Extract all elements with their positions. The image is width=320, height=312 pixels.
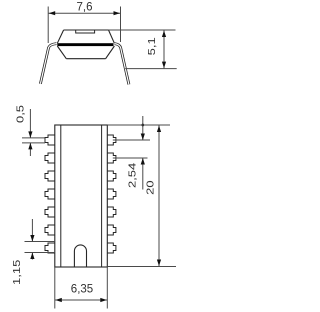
svg-text:6,35: 6,35 bbox=[71, 284, 93, 296]
svg-text:0,5: 0,5 bbox=[16, 105, 26, 123]
svg-text:2,54: 2,54 bbox=[128, 162, 138, 188]
svg-text:20: 20 bbox=[146, 180, 156, 194]
svg-text:7,6: 7,6 bbox=[77, 2, 93, 14]
svg-text:5,1: 5,1 bbox=[147, 37, 157, 55]
svg-text:1,15: 1,15 bbox=[12, 260, 22, 285]
